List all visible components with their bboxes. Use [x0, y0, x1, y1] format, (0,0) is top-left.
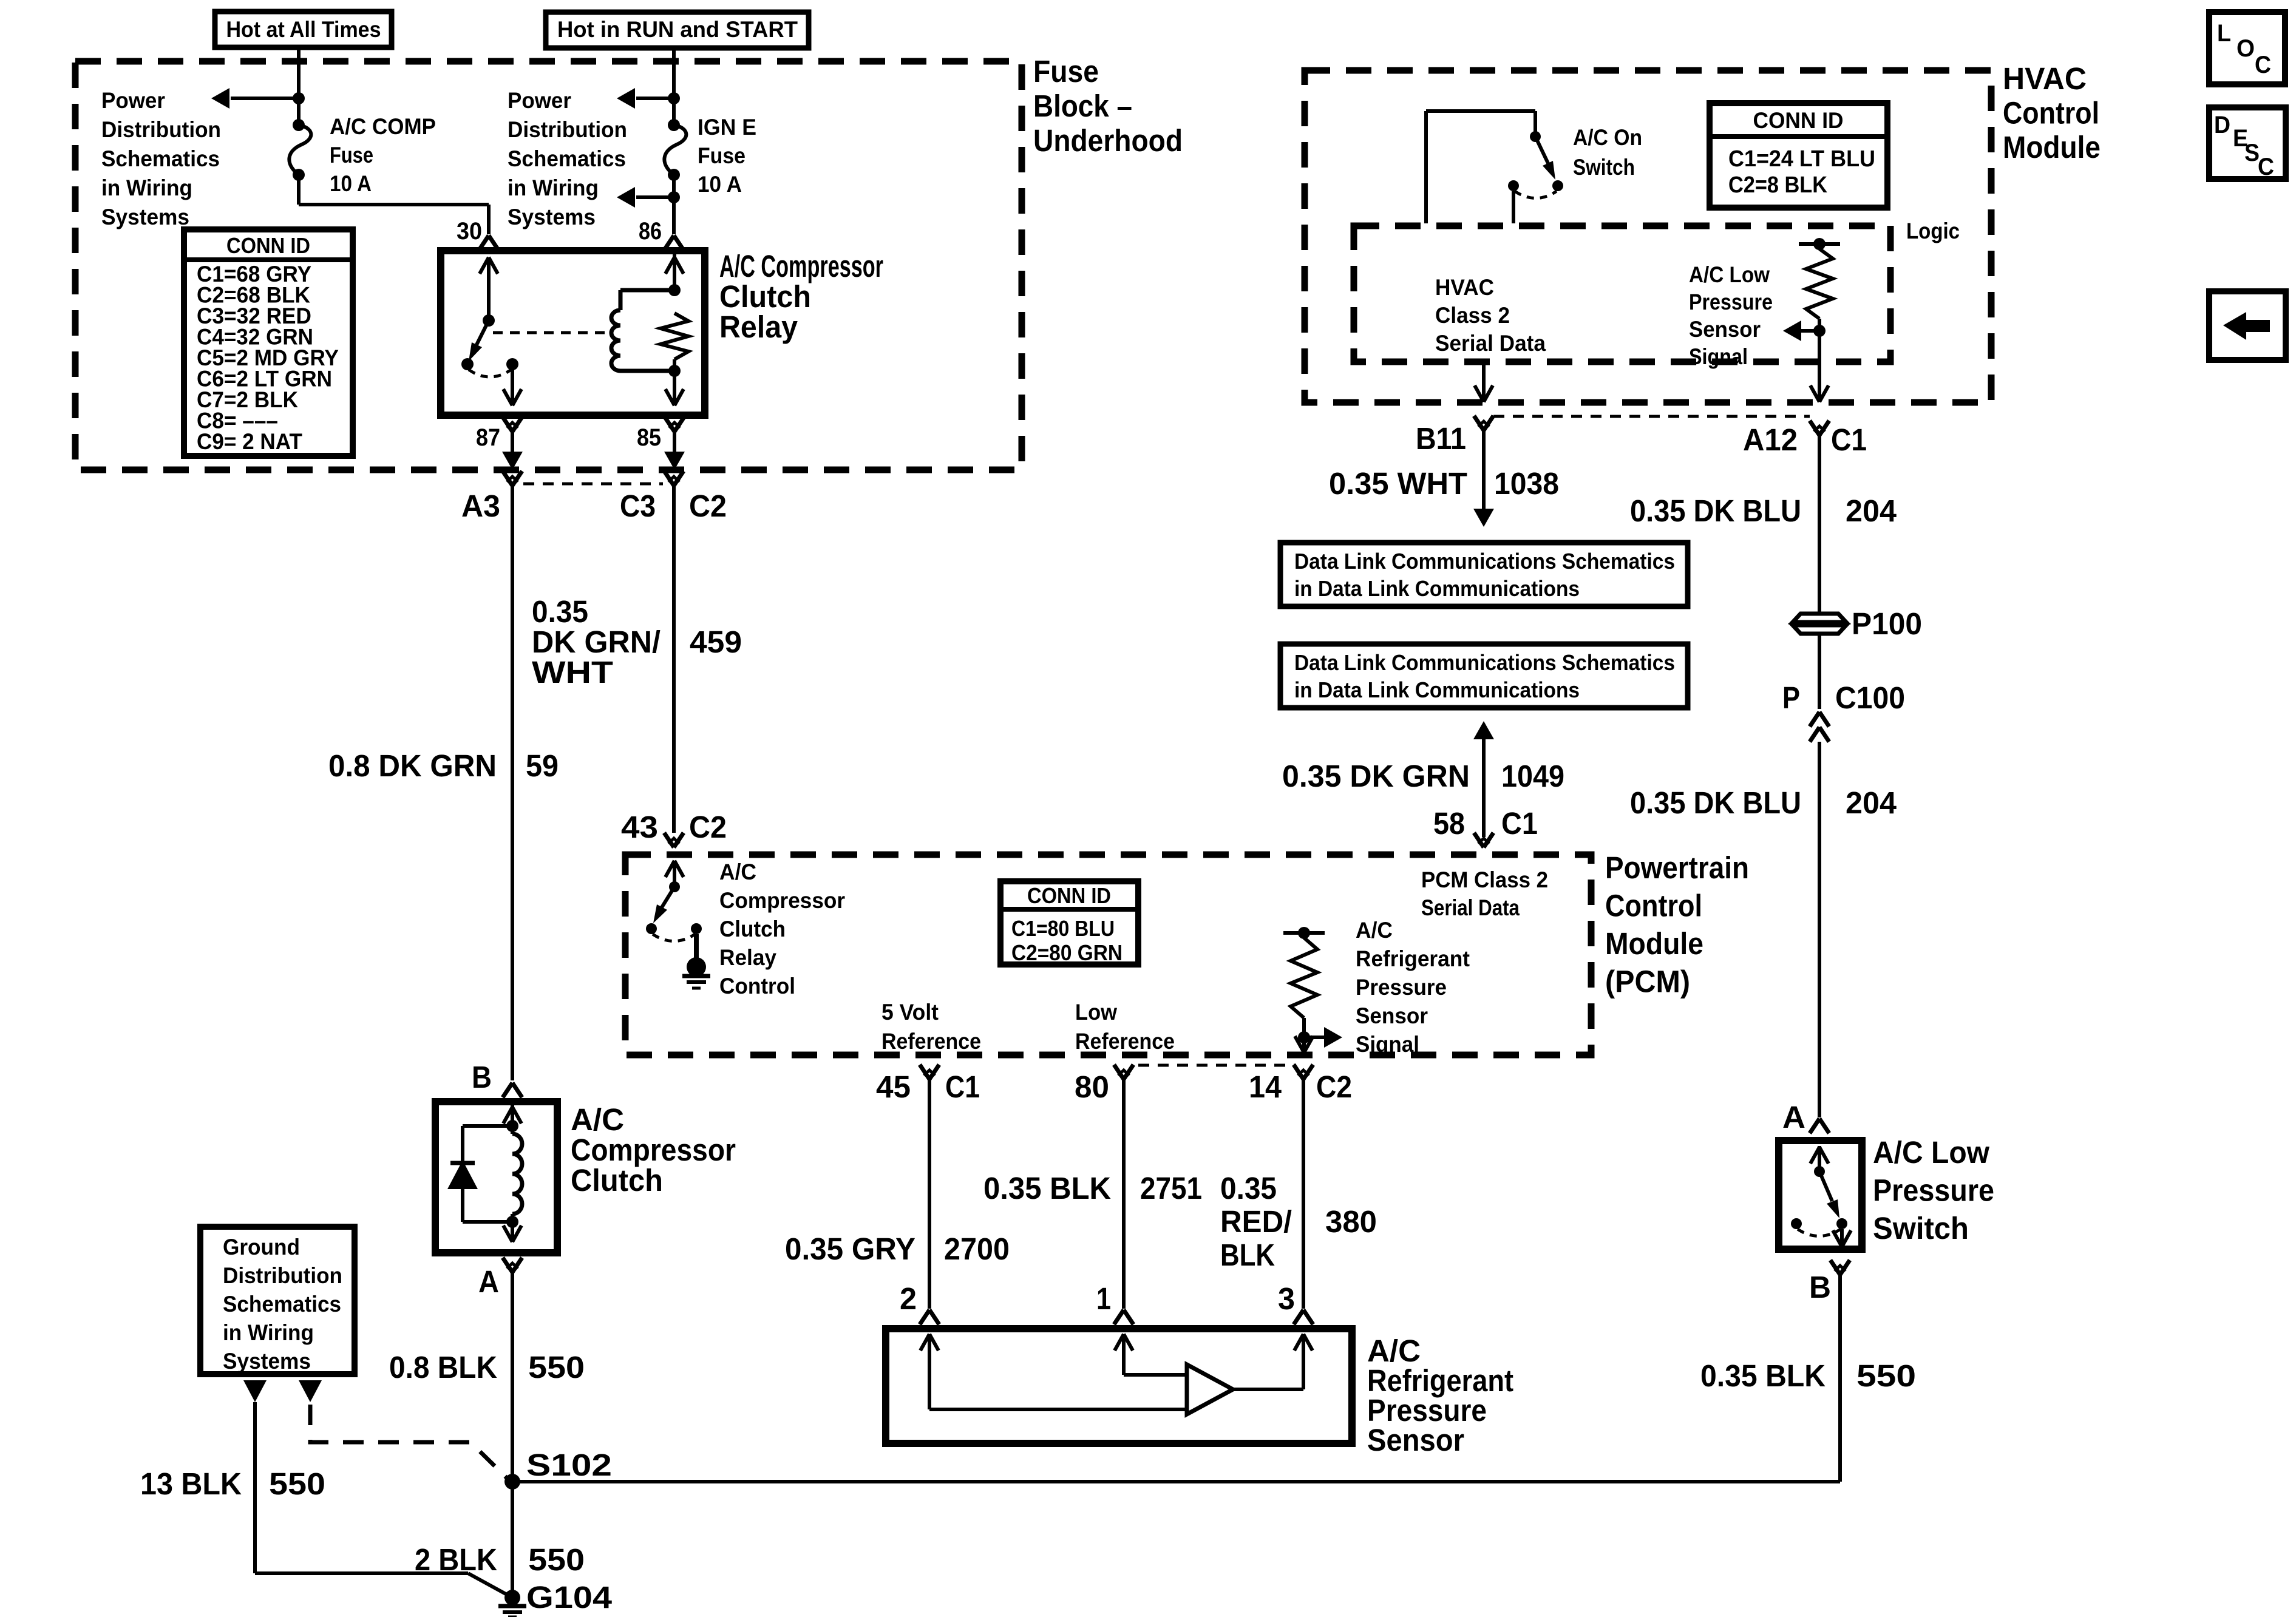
svg-text:IGN E: IGN E [698, 115, 756, 140]
svg-text:CONN ID: CONN ID [226, 233, 310, 258]
svg-text:P100: P100 [1852, 606, 1922, 641]
svg-text:0.35 DK GRN: 0.35 DK GRN [1282, 759, 1470, 793]
svg-text:204: 204 [1846, 493, 1897, 528]
svg-text:87: 87 [476, 424, 500, 451]
svg-text:1038: 1038 [1494, 466, 1559, 501]
svg-text:A12: A12 [1743, 422, 1798, 457]
svg-text:0.35 DK BLU: 0.35 DK BLU [1630, 785, 1801, 820]
svg-text:Reference: Reference [1075, 1029, 1175, 1054]
svg-text:10 A: 10 A [330, 171, 372, 196]
svg-text:Pressure: Pressure [1873, 1173, 1994, 1208]
svg-text:85: 85 [637, 424, 661, 451]
svg-text:D: D [2214, 112, 2230, 138]
svg-text:B: B [472, 1060, 492, 1094]
svg-text:80: 80 [1075, 1070, 1109, 1104]
svg-text:Signal: Signal [1689, 344, 1748, 369]
svg-text:(PCM): (PCM) [1605, 964, 1690, 999]
svg-text:Clutch: Clutch [719, 917, 786, 941]
svg-text:A/C: A/C [571, 1102, 624, 1137]
svg-text:in Wiring: in Wiring [223, 1320, 314, 1345]
svg-text:C100: C100 [1835, 680, 1905, 715]
svg-text:CONN ID: CONN ID [1753, 108, 1844, 133]
svg-text:Control: Control [2003, 96, 2099, 131]
svg-text:Clutch: Clutch [719, 279, 811, 314]
svg-text:0.35: 0.35 [1220, 1171, 1277, 1205]
svg-text:G104: G104 [526, 1580, 613, 1615]
svg-text:A/C Low: A/C Low [1689, 262, 1770, 287]
svg-text:58: 58 [1433, 806, 1465, 841]
svg-text:Systems: Systems [508, 205, 596, 229]
svg-text:Module: Module [1605, 926, 1703, 961]
svg-text:CONN ID: CONN ID [1027, 883, 1111, 908]
svg-text:Signal: Signal [1356, 1032, 1419, 1057]
svg-text:Schematics: Schematics [508, 146, 626, 171]
svg-text:Sensor: Sensor [1689, 317, 1761, 342]
svg-text:Class 2: Class 2 [1435, 303, 1510, 328]
svg-text:Control: Control [1605, 889, 1702, 923]
svg-text:2700: 2700 [944, 1232, 1010, 1266]
svg-text:14: 14 [1249, 1070, 1282, 1104]
svg-text:HVAC: HVAC [1435, 275, 1494, 300]
svg-text:Serial Data: Serial Data [1435, 331, 1546, 356]
svg-text:in Data Link Communications: in Data Link Communications [1294, 576, 1580, 601]
svg-text:43: 43 [621, 810, 658, 844]
svg-text:Serial Data: Serial Data [1421, 895, 1520, 920]
svg-text:5 Volt: 5 Volt [881, 1000, 939, 1025]
svg-text:Sensor: Sensor [1356, 1003, 1428, 1028]
svg-text:Pressure: Pressure [1689, 290, 1773, 314]
svg-text:459: 459 [690, 625, 742, 659]
svg-text:DK GRN/: DK GRN/ [532, 625, 661, 659]
svg-text:Clutch: Clutch [571, 1163, 663, 1198]
svg-text:Underhood: Underhood [1033, 123, 1183, 158]
svg-text:A/C Compressor: A/C Compressor [719, 249, 883, 283]
svg-text:0.35 GRY: 0.35 GRY [785, 1232, 915, 1266]
svg-text:Reference: Reference [881, 1029, 981, 1054]
svg-text:3: 3 [1278, 1281, 1295, 1316]
svg-text:Schematics: Schematics [223, 1292, 341, 1317]
svg-text:550: 550 [1856, 1358, 1916, 1393]
svg-text:Powertrain: Powertrain [1605, 850, 1749, 885]
svg-text:C1: C1 [1831, 422, 1867, 457]
svg-text:59: 59 [526, 748, 559, 783]
svg-text:PCM Class 2: PCM Class 2 [1421, 867, 1548, 892]
svg-text:C: C [2258, 154, 2274, 180]
svg-text:550: 550 [528, 1350, 585, 1385]
svg-text:C9= 2 NAT: C9= 2 NAT [197, 429, 302, 454]
svg-text:0.8 BLK: 0.8 BLK [389, 1350, 497, 1385]
svg-text:A/C Low: A/C Low [1873, 1135, 1989, 1170]
svg-text:0.8 DK GRN: 0.8 DK GRN [328, 748, 497, 783]
svg-text:C: C [2255, 52, 2271, 78]
svg-text:Control: Control [719, 974, 795, 998]
svg-text:Switch: Switch [1873, 1211, 1969, 1246]
svg-text:C1=24 LT BLU: C1=24 LT BLU [1728, 146, 1875, 172]
svg-text:Hot in RUN and START: Hot in RUN and START [557, 17, 798, 42]
svg-text:Low: Low [1075, 1000, 1117, 1025]
svg-text:Sensor: Sensor [1367, 1423, 1464, 1457]
svg-text:Switch: Switch [1573, 155, 1635, 180]
svg-text:Ground: Ground [223, 1235, 300, 1259]
svg-text:C2=80 GRN: C2=80 GRN [1011, 940, 1123, 965]
svg-text:in Wiring: in Wiring [508, 175, 599, 200]
svg-text:Relay: Relay [719, 310, 798, 344]
svg-text:Fuse: Fuse [330, 143, 373, 168]
svg-text:Systems: Systems [101, 205, 189, 229]
svg-text:Data Link Communications Schem: Data Link Communications Schematics [1294, 549, 1675, 574]
svg-text:B: B [1809, 1270, 1831, 1304]
svg-text:BLK: BLK [1220, 1238, 1275, 1272]
svg-text:C1: C1 [945, 1070, 980, 1104]
svg-text:Pressure: Pressure [1356, 975, 1447, 1000]
svg-text:13 BLK: 13 BLK [140, 1466, 242, 1501]
svg-text:2 BLK: 2 BLK [415, 1542, 497, 1577]
svg-text:2751: 2751 [1140, 1171, 1202, 1205]
svg-text:C2: C2 [1316, 1070, 1352, 1104]
svg-text:in Wiring: in Wiring [101, 175, 192, 200]
svg-text:RED/: RED/ [1220, 1204, 1292, 1239]
svg-text:204: 204 [1846, 785, 1897, 820]
svg-text:0.35 BLK: 0.35 BLK [983, 1171, 1111, 1205]
svg-text:30: 30 [457, 218, 482, 245]
svg-text:O: O [2237, 35, 2255, 62]
svg-text:Data Link Communications Schem: Data Link Communications Schematics [1294, 650, 1675, 675]
svg-text:Distribution: Distribution [101, 117, 221, 142]
svg-text:Relay: Relay [719, 945, 776, 970]
svg-text:A: A [1782, 1100, 1805, 1134]
svg-text:C1=80 BLU: C1=80 BLU [1011, 916, 1115, 941]
svg-text:Refrigerant: Refrigerant [1356, 946, 1470, 971]
svg-text:550: 550 [528, 1542, 585, 1577]
svg-text:C2: C2 [689, 810, 727, 844]
svg-text:B11: B11 [1416, 421, 1466, 456]
svg-text:L: L [2217, 20, 2231, 47]
svg-text:1049: 1049 [1501, 759, 1564, 793]
svg-text:HVAC: HVAC [2003, 61, 2087, 96]
svg-text:86: 86 [639, 218, 662, 245]
svg-text:Fuse: Fuse [698, 143, 746, 168]
svg-text:C1: C1 [1501, 806, 1538, 841]
svg-text:Power: Power [101, 88, 165, 113]
svg-text:Hot at All Times: Hot at All Times [226, 17, 381, 42]
svg-text:Power: Power [508, 88, 571, 113]
svg-text:0.35: 0.35 [532, 594, 588, 629]
svg-text:WHT: WHT [532, 655, 613, 690]
svg-text:Compressor: Compressor [719, 888, 845, 913]
svg-text:C2: C2 [689, 489, 727, 523]
svg-text:Systems: Systems [223, 1349, 311, 1374]
svg-text:S102: S102 [526, 1448, 612, 1482]
svg-text:0.35 WHT: 0.35 WHT [1329, 466, 1467, 501]
svg-text:C2=8 BLK: C2=8 BLK [1728, 172, 1827, 198]
svg-text:550: 550 [269, 1466, 325, 1501]
svg-text:Block –: Block – [1033, 89, 1132, 123]
svg-text:Module: Module [2003, 130, 2101, 164]
svg-text:2: 2 [900, 1281, 917, 1316]
svg-text:C3: C3 [620, 489, 656, 523]
svg-text:Fuse: Fuse [1033, 54, 1099, 89]
svg-text:in Data Link Communications: in Data Link Communications [1294, 677, 1580, 702]
svg-text:Compressor: Compressor [571, 1133, 736, 1167]
svg-text:A/C On: A/C On [1573, 125, 1642, 150]
svg-text:A/C COMP: A/C COMP [330, 114, 436, 139]
svg-text:A: A [478, 1264, 499, 1299]
svg-text:A/C: A/C [1356, 918, 1393, 943]
svg-text:45: 45 [876, 1070, 911, 1104]
svg-text:A/C: A/C [719, 859, 756, 884]
svg-text:Distribution: Distribution [508, 117, 627, 142]
svg-text:380: 380 [1325, 1204, 1377, 1239]
svg-text:10 A: 10 A [698, 172, 742, 197]
svg-text:Schematics: Schematics [101, 146, 220, 171]
svg-text:Logic: Logic [1906, 219, 1960, 243]
svg-text:Distribution: Distribution [223, 1263, 342, 1288]
svg-text:A3: A3 [461, 489, 500, 523]
svg-text:P: P [1782, 680, 1800, 715]
svg-text:0.35 DK BLU: 0.35 DK BLU [1630, 493, 1801, 528]
svg-text:1: 1 [1096, 1281, 1111, 1316]
svg-text:0.35 BLK: 0.35 BLK [1700, 1358, 1826, 1393]
